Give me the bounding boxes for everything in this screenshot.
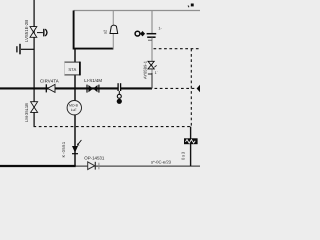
dashed line B (x=191.5) — [190, 49, 192, 127]
capacitor C2 — [147, 27, 163, 38]
svg-text:1uF: 1uF — [71, 108, 77, 112]
wire E (x=191.4) — [190, 127, 192, 166]
svg-text:1`: 1` — [155, 71, 158, 75]
bus wire 1 (y=88.4) — [0, 87, 152, 89]
svg-text:MO-B: MO-B — [69, 103, 79, 107]
svg-text:K-0551: K-0551 — [61, 141, 66, 157]
svg-text:LM-35L1B: LM-35L1B — [24, 103, 29, 122]
dashed line A (y=48.7) — [154, 48, 201, 50]
svg-text:s*-0C-e/23: s*-0C-e/23 — [151, 160, 172, 165]
wire (box right edge x=113.3) — [112, 11, 114, 49]
svg-text:LI-S1/4M: LI-S1/4M — [84, 78, 102, 83]
wire (vertical x=152 upper) — [151, 11, 153, 33]
wire (left vertical x=34.1) — [33, 0, 35, 127]
wire (vertical x=152 lower) — [148, 38, 152, 89]
svg-text:CIRV4TA: CIRV4TA — [40, 78, 59, 83]
svg-text:S7A: S7A — [68, 67, 76, 72]
diode D3 OP-14531 — [84, 155, 105, 169]
box U1 — [74, 11, 114, 49]
relay K1 S7A — [64, 62, 80, 76]
diode D1 CIRV4TA — [40, 78, 59, 92]
buzzer LS1 — [103, 25, 118, 34]
TVS D6 (left lower X) — [24, 102, 38, 122]
svg-text:OP-14531: OP-14531 — [84, 155, 105, 160]
wire (vertical x=75) — [74, 49, 76, 166]
net label s-0C-e23 — [151, 160, 172, 165]
TVS D2 LI-S1/4M — [84, 78, 102, 93]
label top right — [188, 4, 194, 8]
svg-text:LVS51E-2B: LVS51E-2B — [24, 20, 29, 42]
bus wire 2 (y=166) — [0, 165, 200, 167]
svg-text:AY05B9-1: AY05B9-1 — [142, 60, 147, 79]
wire top rail — [74, 10, 200, 12]
resistor R2 — [181, 138, 198, 160]
capacitor C4 — [17, 44, 34, 55]
TVS D4 AY05B9 — [142, 60, 156, 79]
net tick z1 — [148, 71, 158, 75]
svg-text:0s3: 0s3 — [181, 151, 186, 160]
node arrow (right edge y=88.5) — [197, 85, 200, 92]
diode D7 K-0551 — [61, 140, 82, 158]
capacitor C6 with indicator — [117, 83, 122, 104]
capacitor C5 — [37, 29, 47, 37]
connector P1 — [135, 31, 145, 36]
dashed line C (y=88.5) — [155, 87, 197, 89]
motor M1 — [67, 101, 81, 115]
TVS diode D5 — [24, 20, 37, 42]
dashed line D (y=126.6) — [34, 126, 191, 128]
